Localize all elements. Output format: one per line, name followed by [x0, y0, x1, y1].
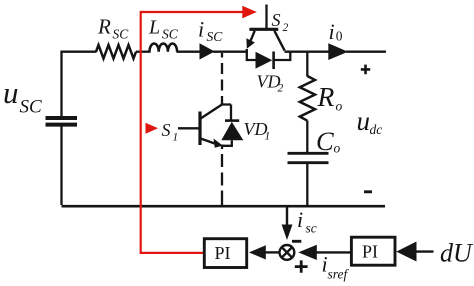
- label VD1: [244, 119, 271, 143]
- red arrow to S2 gate: [242, 6, 256, 19]
- arrow isref into summing: [316, 251, 351, 253]
- transistor S1 emitter arrowhead: [214, 139, 223, 148]
- svg-text:SC: SC: [207, 29, 224, 44]
- label uSC: [3, 75, 42, 118]
- diode VD1 anode lead: [222, 140, 232, 146]
- red arrow to S1 gate: [146, 123, 159, 134]
- wire Co bottom lead: [306, 164, 308, 206]
- inductor LSC: [150, 43, 178, 51]
- svg-text:R: R: [97, 14, 111, 38]
- wire uSC top lead: [62, 52, 97, 117]
- svg-text:dc: dc: [370, 122, 383, 137]
- svg-text:u: u: [357, 106, 371, 136]
- svg-text:i: i: [297, 207, 303, 232]
- svg-text:sref: sref: [328, 267, 350, 282]
- svg-text:dU: dU: [440, 239, 474, 268]
- label iSC: [198, 17, 223, 45]
- current arrow iSC: [200, 43, 215, 59]
- arrow summing to PI left: [265, 251, 280, 253]
- wire output bus right: [346, 51, 386, 53]
- diode VD1 cathode lead: [230, 105, 232, 120]
- wire lower leg to bus: [221, 202, 223, 207]
- wire lower leg junction: [221, 145, 223, 150]
- svg-text:o: o: [334, 141, 341, 156]
- svg-text:R: R: [317, 81, 335, 112]
- transistor S1: [178, 105, 222, 146]
- transistor S2: [249, 5, 285, 51]
- svg-text:o: o: [336, 99, 343, 114]
- svg-text:i: i: [329, 19, 335, 44]
- label S1: [162, 120, 179, 144]
- svg-text:1: 1: [173, 132, 179, 144]
- wire upper leg junction: [222, 103, 231, 105]
- svg-text:2: 2: [283, 22, 289, 34]
- wire LSC to arrow: [177, 51, 201, 53]
- arrow isc into summing: [286, 208, 288, 228]
- diode VD2 cathode bar: [272, 52, 275, 70]
- label VD2: [257, 72, 284, 95]
- diode VD1 cathode bar: [225, 119, 239, 122]
- dashed wire lower leg: [221, 154, 223, 202]
- svg-text:C: C: [316, 126, 334, 156]
- dashed wire upper leg: [221, 53, 223, 105]
- svg-text:S: S: [272, 10, 281, 30]
- capacitor uSC: [46, 118, 78, 125]
- wire Ro branch top: [306, 52, 308, 77]
- wire VD2 cathode to output node: [275, 52, 291, 60]
- transistor S2 emitter arrowhead: [246, 38, 255, 49]
- label Co: [316, 126, 341, 156]
- label isc: [297, 207, 317, 236]
- svg-text:PI: PI: [215, 243, 231, 263]
- PI controller left: [204, 239, 246, 268]
- diode VD1: [221, 122, 243, 141]
- svg-text:S: S: [162, 120, 171, 140]
- wire S2 emitter node to VD2 anode: [247, 49, 256, 60]
- svg-text:2: 2: [278, 83, 284, 95]
- label minus: [364, 190, 372, 193]
- resistor Ro: [300, 76, 315, 121]
- label minus at summing: [292, 240, 301, 243]
- svg-text:1: 1: [265, 131, 271, 143]
- label LSC: [148, 17, 179, 42]
- svg-text:PI: PI: [362, 242, 378, 262]
- wire bottom bus: [62, 205, 386, 208]
- wire output bus: [285, 51, 330, 53]
- PI controller right: [351, 237, 395, 265]
- current arrow i0: [328, 43, 348, 60]
- label Ro: [317, 81, 343, 114]
- arrow dU into PI right: [415, 250, 434, 252]
- label dU: [440, 239, 474, 268]
- svg-text:SC: SC: [162, 27, 179, 42]
- wire Ro to Co: [306, 121, 308, 153]
- label plus at summing: [295, 260, 308, 272]
- label RSC: [97, 14, 129, 41]
- label S2: [272, 10, 289, 34]
- label i0: [329, 19, 343, 44]
- svg-text:SC: SC: [113, 27, 130, 42]
- svg-text:sc: sc: [306, 221, 317, 236]
- summing junction: [280, 245, 295, 260]
- label plus: [361, 65, 370, 75]
- wire uSC bottom lead: [60, 126, 62, 205]
- svg-text:u: u: [3, 75, 19, 110]
- label udc: [357, 106, 383, 137]
- svg-text:0: 0: [336, 29, 343, 44]
- svg-text:L: L: [148, 17, 160, 39]
- wire arrow to S2 emitter node: [213, 51, 248, 53]
- label isref: [322, 251, 350, 281]
- capacitor Co: [288, 153, 329, 162]
- wire RSC to LSC: [136, 51, 151, 53]
- resistor RSC: [96, 45, 136, 59]
- svg-text:SC: SC: [20, 97, 43, 118]
- red gate drive wire: [141, 12, 244, 253]
- diode VD2: [256, 52, 273, 69]
- svg-text:i: i: [198, 17, 204, 42]
